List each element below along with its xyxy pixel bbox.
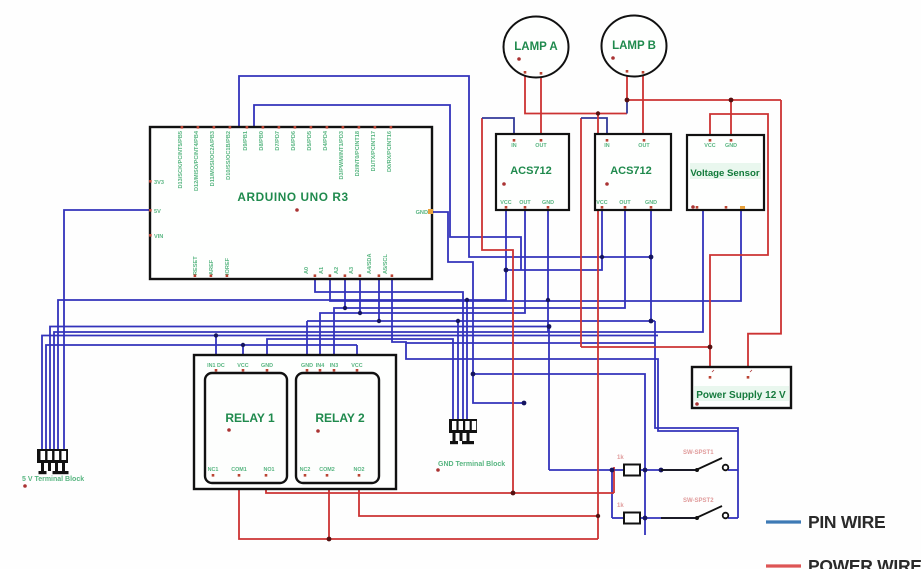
- terminal block 5V: [22, 449, 84, 488]
- svg-text:5V: 5V: [154, 209, 161, 215]
- wire vsensor VCC loop to PSU pin1: [710, 114, 768, 369]
- svg-text:VCC: VCC: [237, 363, 248, 369]
- svg-text:1k: 1k: [617, 455, 624, 461]
- wire ACS1 VCC rail to 5V block: [58, 210, 506, 450]
- wire x614 up: [613, 467, 615, 493]
- svg-text:IOREF: IOREF: [225, 257, 231, 275]
- svg-text:A5/SCL: A5/SCL: [383, 254, 389, 274]
- svg-text:Power Supply 12 V: Power Supply 12 V: [696, 390, 786, 401]
- wire A0 to GND block: [315, 279, 463, 419]
- wire switch row1 left: [549, 469, 624, 471]
- svg-text:PIN WIRE: PIN WIRE: [808, 512, 885, 532]
- svg-text:A1: A1: [319, 267, 325, 274]
- wire lamp A pin1: [525, 74, 627, 114]
- wire A2 stub: [344, 279, 346, 308]
- wire relay IN1 bus right arm: [216, 335, 658, 337]
- svg-text:NC2: NC2: [300, 467, 311, 473]
- wire ACS2 IN loop down: [580, 118, 582, 347]
- svg-text:NO1: NO1: [263, 467, 274, 473]
- svg-text:OUT: OUT: [638, 143, 650, 149]
- wire ACS2 GND down: [650, 210, 652, 321]
- wire relay IN4 to ACS1 out bus: [320, 210, 525, 357]
- svg-text:COM1: COM1: [231, 467, 247, 473]
- svg-text:IN4: IN4: [316, 363, 324, 369]
- arduino left pin labels: [154, 180, 164, 240]
- svg-text:D10/SS/OC1B/PB2: D10/SS/OC1B/PB2: [226, 131, 232, 180]
- WIRES_RED: [239, 72, 781, 539]
- svg-text:NC1: NC1: [208, 467, 219, 473]
- relay module outer box: [194, 355, 396, 489]
- legend power wire: [766, 556, 921, 569]
- svg-text:D8/PB0: D8/PB0: [259, 131, 265, 151]
- svg-text:D4/PD4: D4/PD4: [323, 130, 329, 150]
- relay top pin labels: [207, 363, 363, 369]
- wire GND bus y321: [307, 320, 655, 322]
- svg-text:RESET: RESET: [193, 256, 199, 275]
- wire relay NO1 bus: [266, 489, 614, 493]
- lamp A: [504, 17, 569, 78]
- svg-text:POWER WIRE: POWER WIRE: [808, 556, 921, 569]
- wire lamp B pin2 to ACS2: [642, 73, 644, 141]
- wire vsensor pin1 GND bus to block: [54, 210, 703, 450]
- wire relay COM2 stub: [328, 489, 330, 539]
- svg-text:D6/PD6: D6/PD6: [291, 131, 297, 151]
- svg-text:LAMP A: LAMP A: [514, 41, 557, 53]
- wire x549 column to switch row: [50, 327, 549, 471]
- svg-text:GND: GND: [725, 143, 737, 149]
- svg-text:D9/PB1: D9/PB1: [243, 131, 249, 151]
- arduino top pin labels: [178, 130, 393, 191]
- svg-text:COM2: COM2: [319, 467, 335, 473]
- svg-text:GND: GND: [416, 210, 428, 216]
- arduino top pin dots: [181, 126, 393, 129]
- wire switch row2 left: [612, 517, 624, 519]
- svg-text:IN: IN: [604, 143, 609, 149]
- svg-text:OUT: OUT: [535, 143, 547, 149]
- svg-text:GND Terminal Block: GND Terminal Block: [438, 461, 505, 468]
- wire GND block drop 4: [466, 300, 468, 419]
- resistor R1: [617, 455, 640, 476]
- svg-text:LAMP B: LAMP B: [612, 40, 656, 52]
- svg-text:GND: GND: [542, 200, 554, 206]
- wire switch row2 right: [728, 517, 738, 519]
- wire A1 to voltage sensor pin3: [330, 210, 741, 301]
- svg-text:OUT: OUT: [619, 200, 631, 206]
- svg-text:VCC: VCC: [596, 200, 607, 206]
- wire GND block drop 2: [457, 321, 459, 419]
- svg-text:D3/PWM/INT1/PD3: D3/PWM/INT1/PD3: [339, 131, 345, 180]
- svg-text:ARDUINO UNO R3: ARDUINO UNO R3: [237, 190, 348, 204]
- svg-text:OUT: OUT: [519, 200, 531, 206]
- wire switch row2 mid: [640, 517, 696, 519]
- JUNCTIONS: [214, 255, 664, 521]
- svg-text:VCC: VCC: [500, 200, 511, 206]
- svg-text:IN1 DC: IN1 DC: [207, 363, 225, 369]
- wire relay VCC bus to block: [46, 345, 357, 450]
- relay 1: [205, 373, 287, 483]
- svg-text:IN: IN: [511, 143, 516, 149]
- svg-text:A4/SDA: A4/SDA: [367, 253, 373, 274]
- svg-text:VCC: VCC: [704, 143, 715, 149]
- lamp B: [602, 16, 667, 77]
- wire A3 stub: [359, 279, 361, 313]
- wire y374 to x645 column: [473, 374, 645, 535]
- resistor R2: [617, 503, 640, 524]
- relay 2: [296, 373, 379, 483]
- arduino bottom-left pin labels: [193, 256, 231, 275]
- svg-text:D0/RX/PCINT16: D0/RX/PCINT16: [387, 131, 393, 172]
- svg-text:SW-SPST2: SW-SPST2: [683, 498, 714, 504]
- voltage sensor module: [687, 135, 764, 210]
- wire lamp B pin1: [626, 72, 628, 100]
- wire ACS1 IN loop down: [482, 118, 513, 493]
- wire relay VCC1 stub: [242, 345, 244, 357]
- wire relay COM1 bus: [239, 489, 598, 539]
- wire mains column x598: [597, 114, 599, 540]
- svg-text:GND: GND: [301, 363, 313, 369]
- ACS712 module 2: [595, 134, 671, 210]
- power supply PS1: [692, 367, 791, 408]
- wire lamp A pin2 to ACS1: [540, 74, 542, 141]
- svg-text:GND: GND: [645, 200, 657, 206]
- wire switch row1 right: [728, 469, 738, 471]
- wire arduino top pin D9 loop: [254, 105, 521, 270]
- wire relay NO2 bus: [359, 489, 598, 516]
- svg-text:D12/MISO/PCINT4/PB4: D12/MISO/PCINT4/PB4: [194, 130, 200, 191]
- svg-text:ACS712: ACS712: [610, 165, 652, 177]
- svg-text:IN3: IN3: [330, 363, 338, 369]
- svg-text:5 V Terminal Block: 5 V Terminal Block: [22, 476, 84, 483]
- svg-text:3V3: 3V3: [154, 180, 164, 186]
- svg-text:AREF: AREF: [209, 259, 215, 275]
- wire y343 branch: [406, 342, 655, 344]
- svg-text:D2/INT0/PCINT18: D2/INT0/PCINT18: [355, 131, 361, 176]
- ACS712 module 1: [496, 134, 569, 210]
- wire relay GND1 to GND block: [267, 339, 453, 419]
- svg-text:D13/SCK/PCINT5/PB5: D13/SCK/PCINT5/PB5: [178, 131, 184, 189]
- wire vsensor GND pin up: [730, 100, 732, 141]
- wire A5 long run to switches: [392, 279, 738, 431]
- wire relay GND2 stub: [306, 321, 308, 357]
- svg-text:D5/PD5: D5/PD5: [307, 131, 313, 151]
- terminal block GND: [436, 419, 505, 472]
- wire relay IN3 to ACS2 out bus: [334, 210, 625, 357]
- wire x655 down to switches: [655, 321, 738, 518]
- wire VCC rail ACS1-ACS2: [506, 210, 602, 270]
- svg-text:RELAY 2: RELAY 2: [315, 411, 365, 425]
- svg-text:ACS712: ACS712: [510, 165, 552, 177]
- svg-text:GND: GND: [261, 363, 273, 369]
- svg-text:VIN: VIN: [154, 234, 163, 240]
- wire 5V left to terminal block: [64, 210, 150, 450]
- wire right loop to PSU pin2: [748, 100, 781, 369]
- wire relay VCC2 stub: [356, 345, 358, 357]
- wire A4 stub: [378, 279, 380, 321]
- svg-text:D7/PD7: D7/PD7: [275, 131, 281, 151]
- svg-text:D1/TX/PCINT17: D1/TX/PCINT17: [371, 131, 377, 171]
- svg-text:D11/MOSI/OC2A/PB3: D11/MOSI/OC2A/PB3: [210, 131, 216, 186]
- WIRES_BLUE: [42, 76, 741, 535]
- wire power bus y100: [627, 99, 781, 101]
- wire column x612: [611, 470, 613, 518]
- wire relay IN1 bus: [42, 336, 216, 451]
- svg-text:RELAY 1: RELAY 1: [225, 411, 275, 425]
- svg-text:SW-SPST1: SW-SPST1: [683, 450, 714, 456]
- wire arduino GND chain: [432, 212, 524, 403]
- arduino left pin dots: [149, 180, 152, 237]
- wire arduino top pin D10 loop: [239, 76, 651, 257]
- svg-text:Voltage Sensor: Voltage Sensor: [690, 168, 759, 179]
- switch SW1: [661, 450, 728, 470]
- wire power to PSU y347: [581, 346, 710, 348]
- svg-text:A0: A0: [304, 267, 310, 274]
- svg-text:1k: 1k: [617, 503, 624, 509]
- svg-text:A3: A3: [349, 267, 355, 274]
- svg-text:A2: A2: [334, 267, 340, 274]
- wire ACS1 GND stub: [547, 210, 549, 332]
- arduino bottom-right analog pin labels: [304, 253, 389, 274]
- wire switch row1 mid: [640, 469, 696, 471]
- svg-text:VCC: VCC: [351, 363, 362, 369]
- legend pin wire: [766, 512, 885, 532]
- svg-text:NO2: NO2: [353, 467, 364, 473]
- arduino U1: [150, 127, 432, 279]
- switch SW2: [661, 498, 728, 518]
